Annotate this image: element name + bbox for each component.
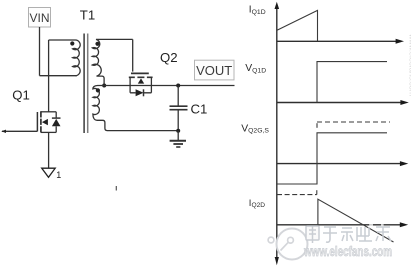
waveform IQ1D ramp bbox=[277, 10, 318, 41]
axis VQ2GS bbox=[277, 163, 401, 165]
svg-text:IQ1D: IQ1D bbox=[249, 5, 266, 16]
Q1 drain bar bbox=[41, 111, 56, 113]
Q2 body arrow bbox=[138, 78, 144, 83]
node VIN bbox=[29, 8, 51, 28]
axis IQ2D bbox=[277, 224, 401, 226]
primary phase dot bbox=[70, 41, 74, 45]
Q1 body arrow bbox=[42, 119, 48, 125]
wire Q2 gate bbox=[132, 39, 134, 71]
capacitor C1 bbox=[170, 106, 188, 110]
node output ground junction bbox=[176, 129, 180, 133]
svg-text:C1: C1 bbox=[191, 102, 208, 117]
waveform VQ1D step bbox=[317, 62, 387, 103]
stray tick mark bbox=[115, 186, 117, 191]
waveform VQ2GS solid bbox=[277, 133, 387, 184]
vertical axis bbox=[276, 7, 278, 258]
watermark gaps on axis bbox=[369, 224, 373, 227]
svg-text:VQ1D: VQ1D bbox=[245, 63, 266, 74]
secondary top winding bbox=[92, 39, 132, 85]
waveform IQ2D dash corner bbox=[316, 190, 318, 194]
svg-text:www.elecfans.com: www.elecfans.com bbox=[303, 244, 392, 259]
Q2 body diode wires bbox=[130, 92, 151, 94]
svg-text:Q2: Q2 bbox=[160, 50, 178, 65]
core line right bbox=[87, 34, 89, 134]
axis VQ1D bbox=[277, 102, 401, 104]
watermark logo bbox=[268, 229, 307, 260]
watermark chinese text bbox=[306, 226, 391, 243]
Q2 gate plate bbox=[131, 72, 149, 74]
wire primary top to Q1 drain bbox=[48, 40, 50, 112]
svg-text:IQ2D: IQ2D bbox=[249, 198, 265, 209]
secondary top phase dot bbox=[95, 42, 99, 46]
secondary bottom phase dot bbox=[96, 88, 100, 92]
waveform IQ2D dashed level bbox=[277, 194, 317, 196]
svg-text:VQ2G,S: VQ2G,S bbox=[241, 123, 269, 134]
primary winding bbox=[49, 40, 81, 76]
Q1 gate plate bbox=[36, 112, 38, 131]
output rail wire bbox=[104, 85, 234, 87]
node tap junction bbox=[102, 84, 106, 88]
wire rail to C1 bbox=[177, 86, 179, 106]
waveform IQ2D ramp bbox=[318, 199, 394, 242]
svg-text:T1: T1 bbox=[80, 8, 95, 23]
Q2 channel bbox=[129, 76, 153, 78]
waveform VQ2GS dashed vertical bbox=[316, 123, 318, 128]
svg-text:VIN: VIN bbox=[29, 11, 49, 25]
Q1 channel bbox=[40, 111, 42, 132]
transistor Q2 bbox=[129, 39, 153, 96]
Q2 body diode bbox=[136, 89, 144, 96]
wire Q1 source to ground bbox=[48, 132, 50, 168]
axis IQ1D bbox=[277, 40, 397, 42]
svg-text:Q1: Q1 bbox=[12, 87, 30, 102]
node VOUT bbox=[195, 60, 235, 80]
wire C1 to ground bbox=[177, 110, 179, 130]
Q1 source bar bbox=[41, 131, 56, 133]
ground 1 bbox=[42, 168, 62, 180]
wire VIN to primary bottom bbox=[40, 75, 77, 77]
Q1 body diode bbox=[52, 119, 61, 126]
waveform VQ2GS dashed high bbox=[317, 121, 390, 123]
svg-text:VOUT: VOUT bbox=[196, 63, 232, 78]
wire VIN down bbox=[39, 27, 41, 76]
waveform axes bbox=[275, 2, 409, 266]
svg-text:1: 1 bbox=[56, 170, 61, 180]
Q2 source and drain leads bbox=[130, 77, 151, 93]
svg-text:www.elecfans.com: www.elecfans.com bbox=[408, 33, 411, 96]
Q1 body diode wires bbox=[55, 112, 57, 118]
core line left bbox=[83, 34, 85, 134]
transistor Q1 bbox=[1, 111, 60, 133]
secondary bottom winding bbox=[93, 86, 178, 131]
node C1 top junction bbox=[176, 84, 180, 88]
wire Q1 gate bbox=[2, 130, 37, 132]
Q1 gate wire end arrow bbox=[1, 130, 6, 133]
ground earth bbox=[170, 131, 186, 147]
